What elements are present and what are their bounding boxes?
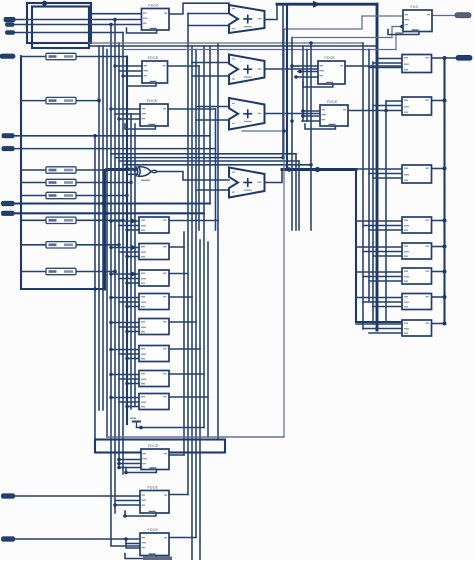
wire right distribution vertical x363 [362, 43, 364, 329]
wire M7 output [169, 373, 204, 375]
flip-flop U5 FDCE [305, 100, 348, 129]
wire rail to buffer B2 [21, 100, 46, 102]
wire U6 input D [362, 15, 403, 17]
wire R1 input a [377, 58, 402, 60]
wire U8 Q up [169, 494, 188, 496]
mux block M5 [139, 319, 169, 335]
svg-text:FDCE: FDCE [148, 56, 159, 60]
wire M5 output [169, 321, 196, 323]
wire rail to buffer B4 [21, 182, 46, 184]
wire mid vertical x188 full [187, 14, 189, 495]
wire R1 input c [369, 67, 402, 69]
adder X4 [229, 168, 265, 198]
wire X4 sum up to mid bus [265, 170, 283, 183]
wire R5 input b [363, 251, 402, 253]
wire U2 Q [168, 65, 200, 67]
lut block R2 [402, 97, 432, 115]
wire rail to buffer B3 [21, 169, 46, 171]
wire M8 input c [127, 406, 139, 408]
buffer B7 [46, 242, 76, 248]
wire A2 to bus [15, 32, 124, 34]
input pin EN0 [2, 201, 15, 205]
wire buffer B2 output [76, 100, 99, 102]
wire center bus line x99 [98, 46, 100, 410]
wire U6 Q to output pin [432, 15, 455, 17]
wire R6 input a [356, 271, 402, 273]
junction dot M6 input c [125, 357, 128, 360]
wire X2 input a [192, 62, 229, 64]
input pin D1 [2, 147, 14, 151]
wire U4 Q to R1 [345, 65, 402, 67]
block bottom edge smudge [143, 557, 172, 561]
wire buffer B6 output [76, 219, 123, 221]
input pin A2 [6, 31, 15, 35]
wire R6 input b [363, 276, 402, 278]
wire long vertical x284 from FDC D [107, 16, 362, 437]
junction dot M7 input c [125, 382, 128, 385]
wire R7 input c [373, 306, 402, 308]
junction dot M2 input a [109, 246, 112, 249]
junction dot row h4 end [309, 163, 313, 167]
flip-flop U9 FDCE bottom3 [125, 528, 169, 558]
wire inner feedback loop top-left [32, 7, 89, 49]
output pin OUT0 [455, 13, 471, 18]
wire loop to U1 input D [91, 13, 142, 15]
ground symbol GND [130, 418, 141, 428]
svg-text:FDCE: FDCE [148, 444, 159, 448]
output pin OUT1 [456, 55, 472, 60]
wire buffer B8 output [76, 271, 115, 273]
wire bundle vertical x287 thick [286, 4, 288, 169]
junction dot buffer B6 output [121, 219, 124, 222]
wire R3 input a [356, 168, 402, 170]
wire mid vertical x208 low [207, 242, 209, 437]
junction dot R5 on right rail [443, 245, 447, 249]
wire bundle vertical x292 from FDC C [291, 38, 293, 231]
junction dot buffer B4 output [129, 181, 132, 184]
wire R7 output to right rail [432, 296, 445, 298]
wire X1 input b [188, 25, 229, 27]
junction dots right bundle [290, 64, 294, 68]
wire rail to buffer B1 [21, 56, 46, 58]
flip-flop U3 FDCE [125, 99, 168, 129]
wire center bus line x135 [134, 124, 136, 407]
junction dot U8 clr [123, 514, 127, 518]
junction dot buffer B8 output [113, 270, 116, 273]
adder X2 [229, 55, 265, 85]
wire R5 input c [373, 255, 402, 257]
junction dot R4 on right rail [443, 219, 447, 223]
wire U9 input c [126, 539, 140, 548]
flip-flop U6 FDC [388, 5, 432, 34]
wire D0 long [14, 135, 210, 137]
wire R5 input a [356, 246, 402, 248]
wire bus row h1 [111, 153, 296, 155]
wire bundle vertical x307 [306, 50, 308, 122]
buffer B4 [46, 179, 76, 185]
wire M6 input c [127, 358, 139, 360]
wire bus row h3 [119, 160, 299, 162]
buffer B2 [46, 97, 76, 103]
wire M3 input c [127, 282, 139, 284]
wire R3 input b [369, 173, 402, 175]
wire thick right drop [376, 4, 379, 330]
wire M6 output [169, 348, 200, 350]
wire xor input b [127, 173, 138, 175]
wire M1 input c [127, 229, 139, 231]
junction dot R8 on right rail [443, 322, 447, 326]
wire M8 input b [119, 401, 139, 403]
wire M3 input b [119, 278, 139, 280]
wire long row y43 [89, 42, 363, 44]
junction dot M4 input c [125, 305, 128, 308]
junction dot M5 input a [109, 321, 112, 324]
wire X1 sum to top bus [265, 4, 278, 19]
wire A1 to FDCE U1 [14, 24, 141, 26]
wire U7 Q up [169, 454, 184, 456]
wire center bus line x95 [94, 136, 96, 440]
wire R6 input c [369, 280, 402, 282]
mux block M1 [139, 217, 169, 233]
junction dot gnd wire [139, 426, 143, 430]
wire D1 long [14, 148, 216, 150]
wire M3 input a [111, 273, 139, 275]
wire U9 Q up [169, 537, 196, 539]
wire center bus line x131 [130, 114, 132, 409]
wire M6 input b [119, 353, 139, 355]
wire R8 input a [356, 323, 402, 325]
lut block R8 [402, 320, 432, 336]
wire R8 input c [369, 332, 402, 334]
wire X3 corner to x284 [242, 130, 284, 132]
junction dot x284 y131 [282, 129, 286, 133]
wire M4 input b [119, 301, 139, 303]
input pin A1 [6, 23, 15, 27]
junction dot M1 input a [109, 219, 112, 222]
wire R7 input b [363, 301, 402, 303]
wire left vertical rail [21, 56, 105, 289]
lut block R7 [402, 294, 432, 310]
junction dot R7 on right rail [443, 295, 447, 299]
junction dots on center bus [93, 287, 97, 291]
wire M5 input a [111, 322, 139, 324]
xor gate G1 [136, 167, 157, 182]
lut block R1 [402, 55, 432, 73]
buffer B6 [46, 217, 76, 223]
junction dot M8 input a [109, 396, 112, 399]
mux block M8 [139, 394, 169, 410]
wire long gray row y437 [107, 436, 284, 438]
wire X1 input a [188, 13, 229, 15]
mux block M3 [139, 270, 169, 286]
mux block M6 [139, 346, 169, 362]
wire R7 input a [356, 297, 402, 299]
lut block R3 [402, 165, 432, 183]
arrow on top bus [313, 1, 321, 8]
wire rail to buffer B8 [21, 271, 46, 273]
wire vertical x299 from row h3 [298, 161, 300, 230]
junction dot buffer B7 output [117, 243, 120, 246]
wire M2 input a [111, 247, 139, 249]
input pin IN_B0 [2, 494, 15, 498]
wire M6 input a [111, 349, 139, 351]
wire mid vertical x192 full [191, 46, 193, 560]
wire M1 input a [111, 220, 139, 222]
wire center bus line x107 [106, 50, 108, 438]
input pin D0 [2, 134, 14, 138]
junction dot M3 input c [125, 281, 128, 284]
wire right distribution vertical x369 [368, 50, 370, 302]
wire bundle vertical x311 [310, 43, 312, 230]
wire bundle vertical x283 [282, 4, 284, 157]
wire right distribution vertical x373 [372, 62, 374, 324]
wire center bus line x115 [114, 20, 116, 514]
input pin IN_B1 [2, 537, 15, 541]
junction dots U3 inputs [109, 107, 112, 110]
wire X2 sum to U4 [265, 68, 319, 70]
input pin EN1 [2, 211, 15, 215]
wire M2 input c [127, 256, 139, 258]
wire thick top bus [277, 3, 377, 6]
mux block M2 [139, 244, 169, 260]
junction dot M8 input c [125, 405, 128, 408]
wire center bus line x119 [118, 43, 120, 468]
wire rail to buffer B7 [21, 244, 46, 246]
wire U8 input c [115, 504, 140, 506]
wire U4 input a [298, 65, 318, 67]
wire R4 output to right rail [432, 220, 445, 222]
wire U5 input b [302, 115, 320, 117]
wire R4 input a [356, 220, 402, 222]
wire outer feedback loop top-left [27, 3, 91, 43]
wire M1 output [169, 220, 218, 222]
wire center bus line x111 [111, 25, 140, 547]
wire mid vertical x210 [209, 46, 211, 204]
wire A0 to FDCE U1 [15, 19, 141, 21]
wire IN_B0 to U8 [15, 495, 141, 497]
junction dot U9 input [124, 537, 128, 541]
wire thick mid bus [282, 168, 356, 171]
lut block R4 [402, 217, 432, 233]
wire R4 input c [369, 229, 402, 231]
wire gnd to mid vertical [137, 427, 205, 429]
wire R1 input b [373, 62, 402, 64]
mux block M7 [139, 371, 169, 387]
junction dot U5 Q [384, 109, 388, 113]
wire U5 input c [302, 120, 320, 122]
junction dot mid bus 1 [287, 167, 292, 172]
wire M4 output [169, 296, 192, 298]
wire R8 output to right rail [432, 323, 445, 325]
wire U8 input b [115, 500, 140, 502]
wire mid vertical x200 low [199, 240, 201, 560]
adder X3 [229, 98, 265, 130]
wire U3 Q [168, 108, 216, 110]
wire U3 input c [119, 118, 140, 120]
wire EN0 long [14, 202, 210, 204]
wire X3 sum to U5 [265, 113, 321, 115]
wire U9 input b [126, 543, 140, 545]
junction dot R3 on right rail [443, 167, 447, 171]
wire buffer B4 output [76, 182, 131, 184]
wire mid vertical x204 [203, 46, 205, 428]
junction dot M5 input c [125, 330, 128, 333]
svg-text:FDCE: FDCE [148, 486, 159, 490]
wire M2 output [169, 246, 184, 248]
wire R5 output to right rail [432, 246, 445, 248]
junction dot U7 clr [124, 471, 128, 475]
wire X4 input b [196, 189, 229, 191]
wire R4 input b [363, 225, 402, 227]
junction dot M2 input c [125, 255, 128, 258]
wire M5 input b [119, 326, 139, 328]
wire X3 input a [196, 106, 229, 108]
wire buffer B3 output [76, 169, 135, 171]
buffer B8 [46, 268, 76, 274]
wire R1 output to pin [445, 57, 457, 59]
flip-flop U7 FDCE bottom1 [126, 444, 169, 472]
wire U7 input b [119, 463, 141, 465]
wire mid vertical x199 [198, 66, 200, 230]
wire EN1 long [14, 212, 204, 214]
flip-flop U8 FDCE bottom2 [125, 486, 169, 516]
junction dot row h2 end [281, 156, 285, 160]
wire M4 input a [111, 297, 139, 299]
junction dot on top loop [42, 1, 47, 6]
wire mid vertical x215 [215, 109, 217, 230]
flip-flop U2 FDCE [127, 56, 168, 86]
wire right rail thick vertical [443, 58, 445, 324]
wire U7 input c [119, 467, 141, 469]
wire X2 input b [192, 75, 229, 77]
wire R8 input b [363, 328, 402, 330]
wire U6 input C long [292, 27, 403, 38]
wire M7 input c [127, 383, 139, 385]
svg-text:FDCE: FDCE [327, 100, 338, 104]
wire M1 input b [119, 225, 139, 227]
thick elbow wire into xor [105, 170, 129, 290]
wire U4 input b [298, 71, 318, 73]
junction dot R6 on right rail [443, 270, 447, 274]
wire R2 input a [386, 100, 402, 102]
wire long row y46 [89, 45, 377, 47]
wire R3 input c [373, 177, 402, 179]
junction dot R1 on right rail [443, 56, 447, 60]
wire bundle stub to U4 [292, 65, 298, 67]
input pin CLK [0, 54, 15, 58]
wire bundle vertical x303 [302, 46, 304, 121]
svg-text:FDCE: FDCE [325, 56, 336, 60]
wire U2 input b [119, 70, 142, 72]
flip-flop U1 FDCE [127, 4, 170, 33]
wire R6 output to right rail [432, 271, 445, 273]
junction dot U8 input [113, 503, 117, 507]
arrow junction at M3 input [131, 271, 138, 276]
wire center bus line x103 [102, 46, 104, 410]
flip-flop U4 FDCE [303, 56, 345, 87]
buffer B1 [46, 53, 76, 59]
adder X1 [229, 5, 265, 33]
wire U1 Q to adder X1 top [169, 3, 229, 14]
input pin A0 [4, 17, 15, 21]
junction dot buffer B5 output [125, 194, 128, 197]
wire mid vertical x196 full [195, 50, 197, 538]
wire bus row h4 [123, 164, 311, 166]
wire mid vertical x218 long [217, 44, 219, 440]
wire U2 input c [123, 75, 142, 77]
wire rail to buffer B5 [21, 195, 46, 197]
wire center bus line x123 [122, 33, 124, 475]
junction dot R2 on right rail [443, 99, 447, 103]
wire U6 clr wrap [396, 33, 403, 50]
junction dot buffer B3 output [133, 168, 136, 171]
arrow junction at M1 input [131, 218, 138, 223]
wire M5 input c [127, 331, 139, 333]
svg-text:FDC: FDC [411, 5, 419, 9]
svg-text:FDCE: FDCE [148, 4, 159, 8]
wire M2 input b [119, 251, 139, 253]
wire U4 input c [298, 76, 318, 78]
wire M3 output [169, 273, 188, 275]
wire center bus thick x127 [126, 57, 128, 425]
wire rail to buffer B6 [21, 219, 46, 221]
wire M4 input c [127, 306, 139, 308]
wire M7 input b [119, 378, 139, 380]
wire buffer B5 output [76, 195, 127, 197]
junction dot M6 input a [109, 348, 112, 351]
wire mid bus drop right [356, 170, 402, 323]
junction dot M7 input a [109, 373, 112, 376]
wire M8 input a [111, 397, 139, 399]
wire U5 Q to R2 [348, 110, 402, 112]
wire M7 input a [111, 374, 139, 376]
wire U2 input a [115, 65, 142, 67]
wire IN_B1 to U9 [15, 538, 141, 540]
wire R2 output to right rail [432, 100, 445, 102]
junction dots U7 inputs [117, 458, 121, 462]
wire buffer B1 output [76, 56, 127, 58]
wire mid vertical x184 low [183, 232, 185, 455]
wire X3 input b [196, 119, 229, 121]
junction dot M3 input a [109, 272, 112, 275]
wire U3 input b [115, 113, 140, 115]
lut block R6 [402, 268, 432, 284]
svg-text:FDCE: FDCE [147, 99, 158, 103]
wire bus row h2 [115, 157, 283, 159]
junction dots U2 inputs [113, 64, 116, 67]
arrow junction at M2 input [131, 245, 138, 250]
wire U5 input a [302, 110, 320, 112]
junction dot mid bus 2 [315, 167, 320, 172]
buffer B3 [46, 167, 76, 173]
buffer B5 [46, 192, 76, 198]
wire long row y49 [122, 49, 396, 51]
wire R3 output to right rail [432, 168, 445, 170]
wire xor input a [127, 168, 138, 170]
junction dot M1 input c [125, 228, 128, 231]
wire U7 input a [119, 459, 141, 461]
wire bottom feedback loop rectangle [95, 440, 225, 453]
wire buffer B7 output [76, 244, 119, 246]
junction dot U6 input [400, 25, 404, 29]
wire X4 input a from xor [158, 172, 230, 181]
lut block R5 [402, 243, 432, 259]
wire vertical x296 from row h1 [295, 154, 297, 230]
wire R2 input b [373, 105, 402, 107]
svg-text:FDCE: FDCE [148, 528, 159, 532]
junction dot M4 input a [109, 296, 112, 299]
wire M8 output [169, 396, 208, 398]
